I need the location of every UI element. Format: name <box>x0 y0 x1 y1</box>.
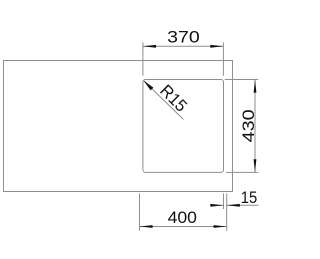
R15 leader arrow <box>144 81 154 91</box>
dim 15 left outside arrow <box>210 204 223 207</box>
dim 430 top arrow <box>254 80 257 93</box>
dim 370 dimension line <box>143 45 224 47</box>
dim 430 bottom arrow <box>254 159 257 172</box>
dim 370 left extension line <box>142 43 144 76</box>
sink outline rectangle <box>4 61 233 192</box>
dim 430 bottom extension line <box>226 171 258 173</box>
dim 400 right arrow <box>214 225 227 228</box>
dim 430 top extension line <box>225 79 258 81</box>
dim 15 left extension line <box>223 193 225 209</box>
svg-text:R15: R15 <box>156 81 191 116</box>
bowl rounded rectangle <box>143 80 224 173</box>
dim 430 dimension line <box>254 80 256 173</box>
svg-text:400: 400 <box>168 208 197 227</box>
dim 400 left extension line <box>139 193 141 230</box>
dim 370 right extension line <box>222 43 224 76</box>
dim 15 dimension line left segment <box>210 204 224 206</box>
svg-text:430: 430 <box>239 109 258 142</box>
svg-text:15: 15 <box>241 188 257 207</box>
dim 370 right arrow <box>210 45 223 48</box>
dim 15 right outside arrow <box>227 204 240 207</box>
dim 15 dimension line right segment <box>227 204 259 206</box>
dim 400 left arrow <box>140 225 153 228</box>
dim 400 right extension line (shared with dim 15) <box>226 193 228 230</box>
dim 400 dimension line <box>140 226 227 228</box>
R15 leader line <box>144 81 184 120</box>
svg-text:370: 370 <box>167 28 200 47</box>
dim 370 left arrow <box>143 45 156 48</box>
